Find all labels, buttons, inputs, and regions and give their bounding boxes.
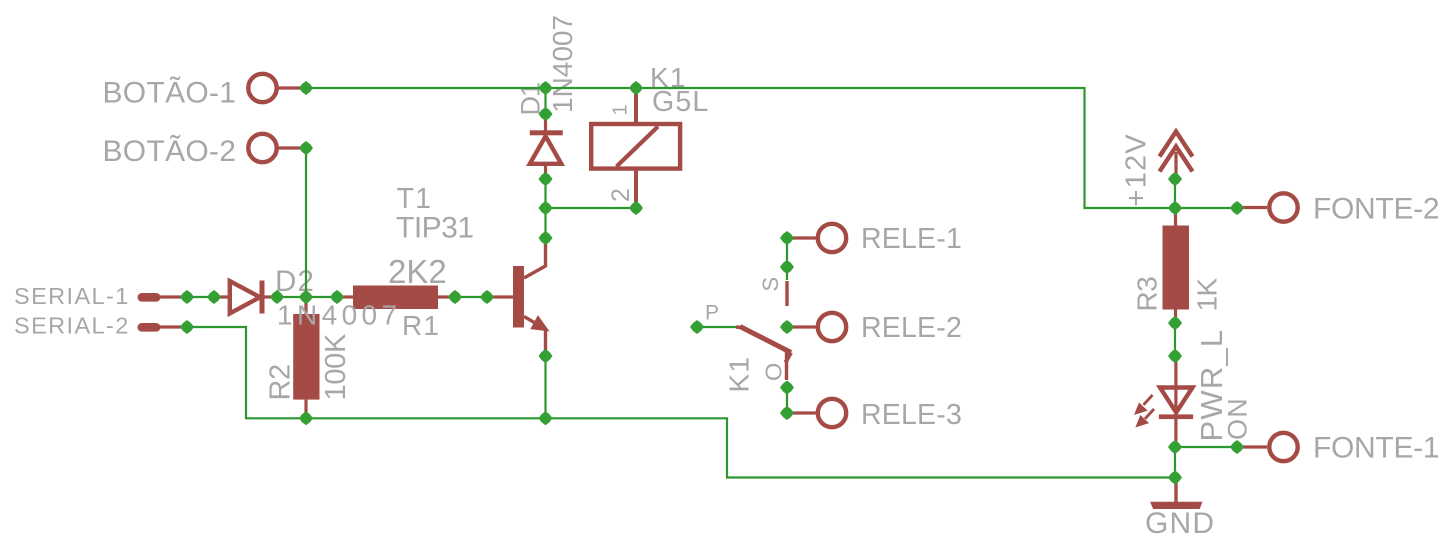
junction LED top <box>1168 349 1182 363</box>
wire serial-1 segment a <box>187 296 214 298</box>
label BOTAO-1 <box>103 76 237 110</box>
svg-text:K1: K1 <box>724 356 755 393</box>
led PWR_L <box>1159 356 1193 447</box>
port RELE-1 circle <box>787 224 846 252</box>
junction base pin <box>480 290 494 304</box>
junction RELE-3 node <box>780 406 794 420</box>
ground GND <box>1151 478 1202 509</box>
svg-text:S: S <box>758 276 783 292</box>
label D2 value 1N4007 <box>277 299 401 330</box>
junction top rail at BOTAO-1 <box>299 81 313 95</box>
svg-text:FONTE-1: FONTE-1 <box>1313 432 1439 465</box>
wire K1 pole P <box>697 326 736 328</box>
svg-text:O: O <box>761 362 787 381</box>
junction FONTE-2 node b <box>1230 201 1244 215</box>
svg-text:SERIAL-2: SERIAL-2 <box>14 313 130 339</box>
wire serial-1 segment b (diode to R1) <box>277 296 337 298</box>
wire D1 bottom to collector <box>544 179 546 238</box>
svg-text:FONTE-2: FONTE-2 <box>1313 193 1439 226</box>
wire base net (R1 to T1) <box>455 296 487 298</box>
pad SERIAL-2 <box>138 323 188 332</box>
led arrow 1 <box>1135 395 1152 414</box>
pad SERIAL-1 <box>138 293 188 302</box>
wire D1 top (net to top rail) <box>544 88 546 114</box>
svg-text:R1: R1 <box>402 310 440 341</box>
wire serial-2 / bottom rail <box>187 327 1175 478</box>
junction R2 bottom <box>299 411 313 425</box>
label K1 relay <box>650 62 687 93</box>
transistor T1 body <box>487 266 524 328</box>
label RELE-2 <box>861 312 962 344</box>
supply +12V symbol <box>1160 132 1193 180</box>
label SERIAL-2 <box>14 313 130 339</box>
label R1 <box>402 310 440 341</box>
svg-text:T1: T1 <box>397 183 433 215</box>
junction top rail at D1 <box>539 81 553 95</box>
junction GND node <box>1168 471 1182 485</box>
pin number 1 (relay) <box>610 103 632 115</box>
junction serial-1 a <box>180 290 194 304</box>
contact P pin <box>736 327 745 328</box>
junction R1 right <box>448 290 462 304</box>
transistor T1 collector <box>524 238 546 278</box>
junction K1 pole net <box>690 320 704 334</box>
label RELE-3 <box>861 399 962 431</box>
resistor R2 <box>293 297 319 418</box>
svg-text:ON: ON <box>1223 397 1253 440</box>
label GND <box>1145 507 1215 540</box>
wire net BOTAO-2 down to serial row <box>305 148 307 297</box>
junction collector top <box>539 231 553 245</box>
junction serial-2 pin <box>180 320 194 334</box>
junction BOTAO-2 pin <box>299 141 313 155</box>
junction FONTE-2 node a <box>1168 201 1182 215</box>
port FONTE-2 circle <box>1237 193 1298 221</box>
junction D2 cathode <box>270 290 284 304</box>
label D1 value 1N4007 <box>547 15 578 113</box>
junction R2 top <box>299 290 313 304</box>
contact S pin <box>785 281 788 306</box>
port RELE-3 circle <box>787 399 846 427</box>
junction relay pin 2 <box>629 201 643 215</box>
port RELE-2 circle <box>787 313 846 341</box>
svg-text:2: 2 <box>607 187 635 202</box>
label +12V <box>1121 133 1153 206</box>
relay coil K1 <box>589 91 682 208</box>
port BOTAO-1 circle <box>248 74 306 102</box>
junction emitter bottom <box>539 411 553 425</box>
wire emitter down to bottom rail <box>544 356 546 418</box>
svg-text:SERIAL-1: SERIAL-1 <box>14 283 130 309</box>
svg-text:RELE-2: RELE-2 <box>861 312 962 344</box>
label K1 value G5L <box>652 86 709 118</box>
contact arm <box>740 327 791 363</box>
wire net BOTAO-1 to top-right corner <box>306 88 1237 208</box>
svg-text:BOTÃO-2: BOTÃO-2 <box>103 134 237 168</box>
junction FONTE-1 node a <box>1168 440 1182 454</box>
junction RELE-1 node <box>780 231 794 245</box>
wire +12V stem <box>1174 179 1176 208</box>
label R3 <box>1132 277 1163 312</box>
svg-text:BOTÃO-1: BOTÃO-1 <box>103 76 237 110</box>
svg-text:R3: R3 <box>1132 277 1163 312</box>
junction D1 anode <box>539 107 553 121</box>
junction O contact node a <box>780 381 794 395</box>
label R3 value 1K <box>1192 278 1223 312</box>
junction serial-1 b <box>207 290 221 304</box>
junction RELE-2 node <box>780 320 794 334</box>
svg-text:+12V: +12V <box>1121 133 1153 206</box>
label SERIAL-1 <box>14 283 130 309</box>
port FONTE-1 circle <box>1237 433 1298 461</box>
svg-text:1N4007: 1N4007 <box>277 299 401 330</box>
label O <box>761 362 787 381</box>
junction FONTE-1 node b <box>1230 440 1244 454</box>
wire R3 to LED <box>1174 323 1176 356</box>
label R1 value 2K2 <box>388 253 447 290</box>
resistor R3 <box>1163 208 1190 323</box>
junction R1 left <box>330 290 344 304</box>
resistor R1 <box>337 286 455 310</box>
junction collector-relay row left <box>539 201 553 215</box>
wire collector row to relay pin 2 <box>546 207 637 209</box>
wire FONTE-1 row <box>1175 446 1237 448</box>
svg-text:R2: R2 <box>265 364 297 400</box>
svg-text:RELE-1: RELE-1 <box>861 223 962 255</box>
svg-text:G5L: G5L <box>652 86 709 118</box>
junction emitter pin <box>539 349 553 363</box>
label RELE-1 <box>861 223 962 255</box>
label FONTE-2 <box>1313 193 1439 226</box>
label T1 value TIP31 <box>396 212 474 245</box>
junction top rail at relay pin1 <box>629 81 643 95</box>
svg-text:GND: GND <box>1145 507 1215 540</box>
label P <box>705 302 720 325</box>
label ON <box>1223 397 1253 440</box>
junction R3 bottom <box>1168 316 1182 330</box>
transistor T1 emitter <box>524 317 548 357</box>
label BOTAO-2 <box>103 134 237 168</box>
svg-text:1: 1 <box>610 103 632 115</box>
label D1 <box>516 83 546 116</box>
svg-text:100K: 100K <box>320 333 352 400</box>
junction +12V node <box>1168 172 1182 186</box>
svg-text:1N4007: 1N4007 <box>547 15 578 113</box>
diode D2 <box>214 281 277 314</box>
label R2 value 100K <box>320 333 352 400</box>
label PWR_L <box>1194 329 1229 442</box>
wire K1 S contact net <box>786 238 788 280</box>
svg-text:2K2: 2K2 <box>388 253 447 290</box>
label D2 <box>275 265 315 298</box>
label S <box>758 276 783 292</box>
svg-text:TIP31: TIP31 <box>396 212 474 245</box>
label R2 <box>265 364 297 400</box>
label T1 <box>397 183 433 215</box>
label FONTE-1 <box>1313 432 1439 465</box>
led arrow 2 <box>1137 409 1154 426</box>
svg-text:1K: 1K <box>1192 278 1223 312</box>
label K1 contact <box>724 356 755 393</box>
wire LED cathode to bottom <box>1174 447 1176 478</box>
svg-text:RELE-3: RELE-3 <box>861 399 962 431</box>
junction S contact node <box>780 260 794 274</box>
diode D1 <box>530 114 563 179</box>
port BOTAO-2 circle <box>248 134 306 162</box>
pin number 2 (relay) <box>607 187 635 202</box>
contact O pin <box>785 352 788 380</box>
svg-text:P: P <box>705 302 720 325</box>
junction D1 cathode <box>539 172 553 186</box>
wire K1 O contact net <box>786 388 788 414</box>
